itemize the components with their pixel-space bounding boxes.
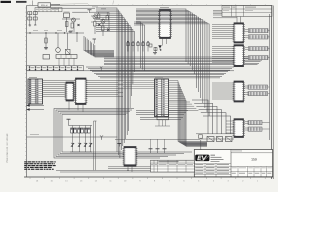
component small bbox=[199, 135, 203, 138]
company name text bbox=[211, 154, 216, 157]
capacitor C7 bbox=[154, 48, 157, 51]
wire fan from J1 bbox=[43, 81, 155, 97]
IC U5 bbox=[233, 23, 245, 43]
terminal arrow left 1 bbox=[27, 105, 45, 107]
wire bbox=[70, 151, 92, 153]
IC U7 bbox=[233, 81, 245, 102]
capacitor C1 bbox=[28, 12, 32, 15]
bus horizontal band lower bbox=[86, 67, 234, 78]
wire stubs below U2 U3 bbox=[68, 101, 70, 110]
drawing frame border bbox=[26, 6, 28, 178]
connector J1 bbox=[28, 79, 43, 104]
revision table top right bbox=[222, 6, 272, 17]
transistor Q1 group box bbox=[64, 13, 70, 18]
scan streak bbox=[48, 3, 88, 4]
connector X1 LOAD box bbox=[38, 3, 51, 7]
net rail with junctions bbox=[27, 32, 85, 34]
diode D2 bbox=[107, 29, 110, 32]
wire bbox=[200, 138, 234, 140]
bus staircase right bbox=[136, 9, 209, 116]
resistor network RP8 bbox=[248, 127, 262, 131]
ground bbox=[153, 52, 157, 54]
resistor network RP1 bbox=[249, 29, 269, 33]
svg-text:PWB 4762-102 EV 100159: PWB 4762-102 EV 100159 bbox=[6, 133, 9, 163]
wire top rails to right border bbox=[213, 11, 237, 18]
wire bus west of U4 bbox=[134, 22, 145, 71]
resistor R1 bbox=[66, 22, 69, 27]
wire IC U9 bottom stubs bbox=[127, 166, 129, 170]
title block frame bbox=[194, 150, 272, 177]
IC U9 bbox=[123, 147, 138, 167]
power rail right bbox=[269, 14, 271, 140]
wire rail bbox=[51, 7, 96, 9]
relay K2 bbox=[56, 55, 77, 59]
crystal box Y2 bbox=[207, 137, 214, 142]
component K3 box bbox=[157, 115, 169, 120]
node arrow Y bbox=[101, 137, 103, 140]
revision history table bbox=[151, 160, 195, 172]
wire IC to packs bbox=[244, 30, 249, 131]
diode D1 bbox=[78, 24, 80, 26]
capacitor C6 bbox=[149, 44, 152, 47]
frame grid reference ticks top edge bbox=[30, 4, 265, 6]
svg-text:159: 159 bbox=[251, 157, 257, 161]
company logo EV bbox=[195, 155, 209, 162]
wire bus horizontal bbox=[27, 70, 235, 72]
wire stubs below U4 bbox=[162, 39, 164, 46]
wire table to IC U5 bbox=[236, 17, 238, 23]
wire bbox=[43, 6, 45, 9]
pull-up resistors R10-R14 bbox=[127, 41, 149, 52]
node junction bbox=[160, 49, 161, 50]
wire bbox=[73, 126, 91, 153]
bus corner stack west bbox=[84, 36, 114, 57]
bus horizontal band upper bbox=[104, 57, 265, 65]
bus band middle lower bbox=[136, 111, 188, 120]
terminal T2 bbox=[93, 38, 97, 40]
crystal box Y4 bbox=[226, 137, 233, 142]
capacitor C4 bbox=[33, 17, 37, 20]
resistor R5 bbox=[45, 33, 47, 50]
IC U8 bbox=[233, 119, 245, 138]
IC U4 bbox=[158, 10, 172, 39]
diode D4 bbox=[98, 24, 101, 27]
relay K1 bbox=[43, 55, 50, 60]
wire fan from J2 bbox=[169, 81, 208, 147]
resistor network RP6 bbox=[248, 92, 268, 96]
transistor Q2 bbox=[72, 18, 76, 22]
wire bbox=[115, 138, 200, 140]
jumper row W1-W9 bbox=[29, 66, 82, 70]
capacitor C9 bbox=[156, 148, 160, 150]
wire bus to IC pins bbox=[212, 25, 234, 100]
wire long net bbox=[27, 136, 118, 138]
notes text block bbox=[24, 161, 56, 170]
page scan marks top edge bbox=[1, 1, 12, 3]
crystal box Y3 bbox=[217, 137, 223, 142]
capacitor C8 bbox=[149, 148, 153, 150]
capacitor C3 bbox=[28, 17, 32, 20]
transistor Q3 bbox=[93, 15, 97, 19]
wire bottom rails bbox=[56, 169, 194, 171]
wire pair vertical bbox=[93, 121, 95, 171]
resistor network RP5 bbox=[248, 85, 268, 89]
node labels bbox=[92, 6, 98, 9]
resistor R4 bbox=[102, 26, 105, 31]
wire relay K2 to strip bbox=[59, 58, 74, 65]
wire pack to rail bbox=[262, 31, 270, 130]
IC U2 bbox=[65, 82, 75, 101]
IC U6 bbox=[233, 45, 245, 67]
title block rows left bbox=[194, 163, 231, 177]
crystal Y1 bbox=[67, 33, 69, 49]
resistor R6 bbox=[98, 14, 100, 19]
capacitor C10 bbox=[163, 148, 167, 150]
wire bbox=[29, 12, 31, 25]
resistor network RP3 bbox=[249, 47, 269, 51]
resistor bank RN1 row bbox=[71, 128, 91, 133]
ground bbox=[69, 31, 73, 33]
terminal strip header cells bbox=[35, 8, 62, 12]
bus corner nest lower right bbox=[192, 100, 231, 134]
wire bbox=[62, 18, 80, 20]
title block right cells bbox=[231, 152, 273, 154]
wire stubs bbox=[158, 120, 160, 126]
wire bbox=[98, 12, 100, 14]
svg-text:0301-M: 0301-M bbox=[41, 4, 48, 7]
resistor network RP2 bbox=[249, 35, 269, 39]
node arrow bbox=[100, 67, 101, 69]
capacitor C5 bbox=[44, 47, 48, 49]
wire bbox=[69, 125, 93, 127]
capacitor C2 bbox=[33, 12, 37, 15]
resistor R7 bbox=[106, 16, 108, 21]
wire to title block bbox=[200, 140, 202, 152]
transistor row Q6-Q9 bbox=[71, 143, 92, 147]
wire J2 east rails bbox=[169, 102, 199, 110]
terminal T1 bbox=[88, 9, 92, 11]
IC U3 bbox=[74, 78, 87, 105]
transistor Q5 bbox=[57, 33, 59, 48]
wire bbox=[76, 33, 78, 42]
diode D3 bbox=[159, 46, 162, 49]
ground bbox=[29, 24, 32, 26]
resistor R2 bbox=[71, 23, 74, 28]
resistor network RP4 bbox=[249, 56, 269, 60]
wire IC U8 connections bbox=[226, 121, 234, 133]
connector J2 bbox=[155, 79, 169, 117]
terminal arrow left 2 bbox=[27, 109, 45, 111]
wire bbox=[94, 13, 96, 22]
resistor R3 bbox=[94, 22, 97, 27]
resistor network RP7 bbox=[248, 121, 262, 125]
transistor Q4 bbox=[101, 19, 105, 23]
frame grid reference ticks bottom edge bbox=[30, 177, 265, 179]
scan tone veil bbox=[27, 6, 273, 178]
power T node bbox=[118, 142, 122, 144]
frame ruler ticks left edge bbox=[25, 8, 27, 172]
bus staircase center bbox=[96, 8, 134, 158]
bus loop nested bbox=[54, 109, 192, 159]
terminal strip X2 outline bbox=[27, 66, 84, 71]
power rail T symbol bbox=[67, 118, 71, 120]
